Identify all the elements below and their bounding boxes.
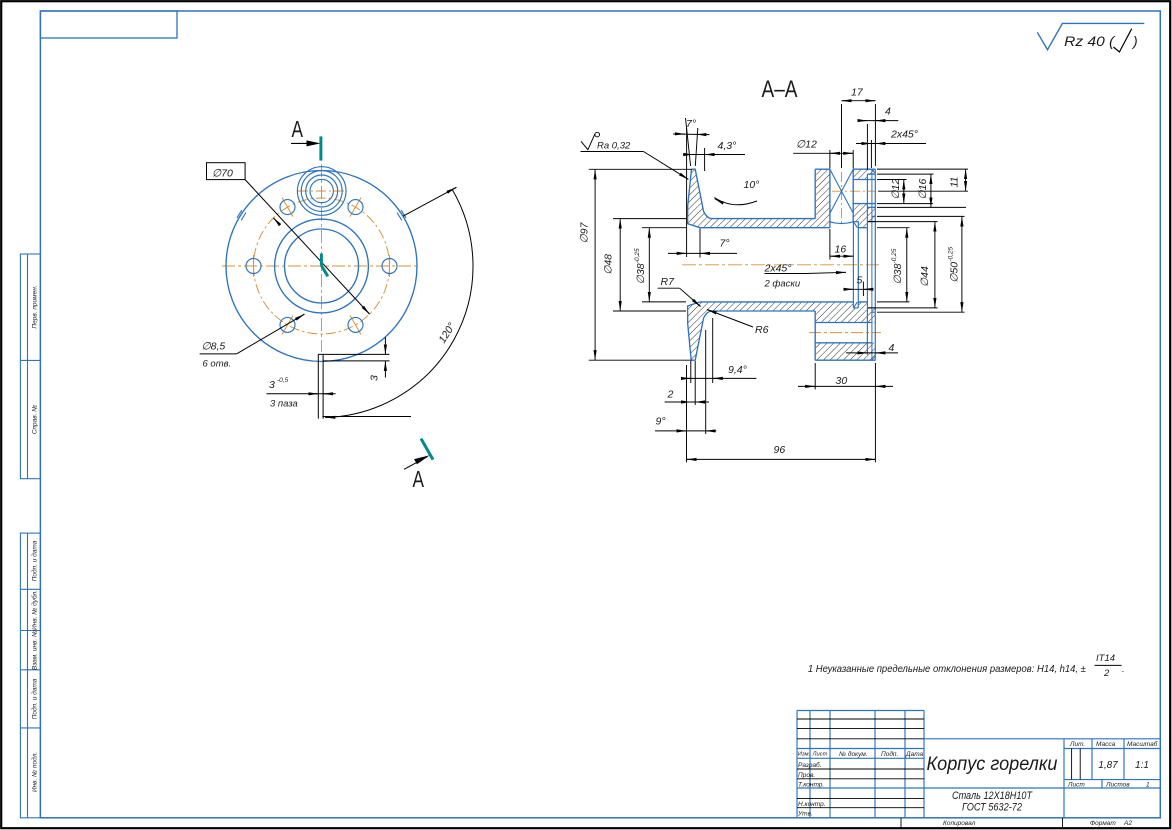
tube OD (711, 218, 815, 220)
blue outlines (688, 169, 876, 360)
Rz 40 roughness mark top right (1037, 23, 1144, 52)
dim 7deg bore (699, 229, 701, 258)
groove bottom (853, 307, 858, 309)
svg-text:IT14: IT14 (1096, 653, 1115, 664)
leader R7 (658, 287, 680, 289)
dim texts (578, 87, 960, 456)
dim 4 top (866, 124, 868, 170)
svg-text:Подп. и дата: Подп. и дата (31, 678, 39, 719)
svg-text:Изм.: Изм. (798, 752, 810, 758)
dim 4 bottom (846, 352, 898, 354)
6 bolt holes (246, 259, 261, 274)
top boss circles (310, 179, 333, 202)
top-left corner box (40, 11, 177, 38)
svg-text:16: 16 (835, 244, 847, 256)
dim Ø44 (868, 221, 938, 223)
dim Ø16 (877, 173, 934, 175)
svg-text:Листов: Листов (1105, 782, 1130, 789)
svg-text:2 фаски: 2 фаски (764, 279, 801, 290)
bolt hole radial ticks (282, 198, 293, 217)
dim 17 (841, 104, 843, 168)
svg-text:A: A (413, 466, 425, 492)
hatching regions (688, 169, 876, 360)
svg-text:17: 17 (851, 87, 864, 99)
svg-text:Подп.: Подп. (881, 750, 898, 758)
svg-text:Дата: Дата (905, 751, 924, 758)
svg-text:∅70: ∅70 (212, 168, 233, 180)
tube wall bottom (688, 302, 816, 311)
svg-text:Масса: Масса (1096, 741, 1116, 748)
svg-text:∅97: ∅97 (578, 221, 590, 243)
svg-text:-0,25: -0,25 (891, 248, 898, 263)
svg-text:Перв. примен.: Перв. примен. (32, 285, 39, 328)
dim Ø8,5 / 6 отв (200, 314, 305, 354)
svg-text:№ докум.: № докум. (839, 750, 868, 758)
svg-text:∅38: ∅38 (635, 263, 647, 284)
flange circles (226, 167, 417, 362)
svg-text:∅50: ∅50 (949, 262, 961, 283)
svg-text:R7: R7 (661, 276, 676, 288)
svg-text:∅38: ∅38 (892, 263, 904, 284)
svg-text:96: 96 (774, 444, 786, 456)
svg-text:Разраб.: Разраб. (798, 761, 822, 769)
section plane marks (291, 116, 433, 492)
dim 3-0.5 / 3 паза (267, 393, 336, 395)
dim 10deg arc (715, 198, 758, 205)
dim Ø12 vertical hole (793, 152, 853, 154)
dim 3 (slot depth) (384, 338, 386, 378)
svg-text:5: 5 (857, 274, 863, 286)
svg-text:3 паза: 3 паза (270, 399, 298, 410)
dim 30 (814, 363, 816, 389)
dim 2 (694, 361, 696, 405)
left flange profile top (692, 169, 712, 218)
svg-text:4: 4 (885, 106, 891, 118)
svg-text:Взам. инв. №: Взам. инв. № (32, 630, 39, 670)
dim Ø12 (877, 179, 907, 181)
leader 2x45 2 faski (765, 273, 807, 275)
long left extension (686, 128, 688, 257)
dim 4,3deg (684, 154, 745, 156)
svg-text:А2: А2 (1123, 820, 1132, 827)
svg-text:10°: 10° (744, 179, 760, 191)
bottom slot (318, 354, 389, 419)
svg-text:Формат: Формат (1090, 820, 1116, 827)
svg-text:9,4°: 9,4° (728, 364, 747, 376)
svg-text:∅16: ∅16 (917, 179, 929, 200)
svg-text:Утв.: Утв. (797, 811, 813, 818)
dim Ø48 (613, 218, 686, 220)
Ra 0.32 mark (595, 132, 600, 137)
svg-text:A: A (292, 116, 304, 142)
svg-text:2: 2 (667, 388, 674, 400)
svg-text:11: 11 (949, 177, 961, 188)
svg-text:6 отв.: 6 отв. (203, 359, 232, 370)
svg-text:30: 30 (836, 375, 848, 387)
dim 5 (862, 282, 864, 297)
svg-text:1: 1 (1146, 782, 1150, 789)
dim 7deg top (686, 118, 691, 166)
svg-text:4,3°: 4,3° (718, 140, 737, 152)
svg-text:∅12: ∅12 (890, 179, 902, 200)
svg-text:-0,25: -0,25 (948, 246, 955, 261)
svg-text:Лит.: Лит. (1069, 741, 1085, 748)
dim 9deg (686, 365, 688, 434)
svg-text:Подп. и дата: Подп. и дата (31, 540, 39, 581)
svg-text:R6: R6 (755, 324, 769, 336)
svg-text:3: 3 (269, 379, 275, 391)
title block (797, 711, 1160, 818)
svg-text:Ra 0,32: Ra 0,32 (597, 140, 631, 151)
dim 120 arc (323, 187, 474, 417)
svg-text:1 Неуказанные предельные откло: 1 Неуказанные предельные отклонения разм… (808, 664, 1086, 675)
svg-text:2х45°: 2х45° (890, 129, 918, 141)
right flange bottom band upper (815, 302, 853, 323)
svg-text:Пров.: Пров. (798, 772, 815, 779)
slot upper-right (237, 210, 406, 220)
svg-text:Н.контр.: Н.контр. (798, 801, 826, 808)
axial hole Ø12/Ø16 walls (853, 179, 875, 181)
right flange faces (814, 169, 816, 218)
svg-text:1,87: 1,87 (1098, 760, 1118, 771)
svg-text:Корпус горелки: Корпус горелки (927, 753, 1058, 775)
left flange wedge top (688, 169, 711, 218)
dim Ø38 right (877, 227, 910, 229)
dim Ø70 with box (207, 163, 370, 314)
left margin stamp lower (20, 533, 40, 818)
svg-text:A–A: A–A (762, 76, 798, 103)
left margin stamp upper (20, 254, 40, 479)
right flange bottom band lower (815, 343, 875, 360)
dim Ø38 left (642, 227, 686, 229)
dim 2x45 top (856, 143, 926, 145)
svg-text:7°: 7° (720, 238, 730, 250)
bolt hole in flange (bottom) (815, 322, 872, 324)
svg-text:Копировал: Копировал (943, 820, 976, 827)
right flange left block top (815, 169, 830, 228)
svg-text:Сталь 12Х18Н10Т: Сталь 12Х18Н10Т (952, 790, 1033, 802)
centerlines (222, 164, 420, 352)
svg-text:∅8,5: ∅8,5 (202, 341, 226, 353)
dimensions (581, 101, 969, 463)
svg-text:ГОСТ 5632-72: ГОСТ 5632-72 (962, 802, 1022, 814)
svg-text:9°: 9° (656, 415, 666, 427)
dim 11 (877, 168, 968, 170)
dim 16 (829, 229, 831, 260)
right flange right blocks top (853, 169, 875, 174)
svg-text:2: 2 (1103, 668, 1110, 679)
svg-text:3: 3 (369, 375, 381, 381)
svg-text:∅48: ∅48 (603, 254, 615, 275)
svg-text:Rz 40 (: Rz 40 ( (1064, 33, 1115, 49)
dim Ø50 (877, 215, 965, 217)
slot upper-left (241, 213, 246, 221)
svg-text:Справ. №: Справ. № (32, 405, 39, 435)
left flange profile bottom (691, 311, 711, 360)
svg-text:-0,25: -0,25 (634, 248, 641, 263)
svg-text:∅12: ∅12 (796, 139, 817, 151)
svg-text:Лист: Лист (812, 752, 828, 758)
note text (808, 653, 1125, 679)
left flange wedge bottom (688, 311, 711, 360)
right end verticals (866, 174, 868, 355)
tube wall top (688, 219, 816, 228)
svg-text:-0,5: -0,5 (277, 377, 289, 384)
svg-text:Лист: Лист (1067, 782, 1085, 789)
svg-text:Инв. № подл.: Инв. № подл. (31, 752, 39, 793)
svg-text:4: 4 (889, 342, 895, 354)
leader R6 (707, 310, 753, 328)
svg-text:Масштаб: Масштаб (1127, 740, 1158, 748)
radial hole channel (829, 169, 831, 228)
dim Ø97 (589, 168, 692, 170)
svg-text:.: . (1122, 664, 1125, 675)
bore (700, 227, 830, 229)
dim 9,4deg (690, 361, 692, 383)
dim 96 (686, 434, 688, 462)
groove top (853, 222, 858, 308)
svg-text:Инв. № дубл.: Инв. № дубл. (31, 590, 39, 630)
svg-text:∅44: ∅44 (919, 266, 931, 287)
orange centerlines (682, 172, 881, 333)
svg-text:7°: 7° (686, 118, 696, 130)
svg-text:Т.контр.: Т.контр. (798, 782, 824, 789)
svg-text:2х45°: 2х45° (764, 263, 792, 275)
svg-text:1:1: 1:1 (1135, 760, 1149, 771)
countersink X (830, 169, 853, 213)
